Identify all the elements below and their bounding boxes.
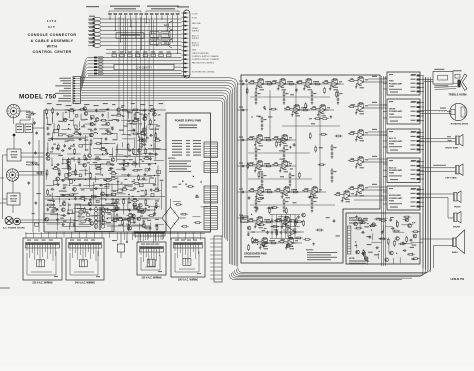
svg-text:SUPPLY: SUPPLY (192, 38, 200, 40)
crossover row wire y=110 (284, 107, 334, 111)
svg-text:FRONT: FRONT (454, 206, 461, 208)
svg-text:POWER AMP.: POWER AMP. (389, 140, 403, 143)
svg-text:CONSOLE CONNECTOR: CONSOLE CONNECTOR (28, 33, 77, 37)
junction node (13, 134, 16, 137)
output buffer op-amp (drum channel) (348, 102, 387, 114)
wire name labels row (47, 103, 163, 106)
crossover op-amp stage (276,192) (274, 187, 294, 199)
scan tone veil crossover (242, 76, 379, 262)
LESLIE 750 footer label (451, 278, 465, 281)
svg-text:NOTES:: NOTES: (168, 158, 176, 160)
svg-text:AUX #2: AUX #2 (389, 166, 397, 169)
connector horizontal wire rows (106, 19, 182, 53)
svg-text:POWER SUPPLY PWB: POWER SUPPLY PWB (175, 120, 202, 123)
crossover op-amp stage (274,166) (272, 161, 292, 173)
power supply output connector J3 (204, 186, 218, 203)
svg-text:R L/O: R L/O (192, 17, 197, 19)
scan tone veil connector (88, 5, 192, 76)
inter-board vertical wires (382, 76, 386, 266)
treble horn wires (424, 80, 457, 90)
svg-text:LOWER: LOWER (10, 196, 18, 198)
svg-text:CONTROL SUPPLY COMMON: CONTROL SUPPLY COMMON (192, 56, 219, 58)
main cable bundle to amplifiers (81, 78, 238, 267)
crossover op-amp stage (250,192) (248, 187, 268, 199)
bass power amp labels (349, 217, 369, 264)
connector matrix component cluster (150, 32, 170, 45)
bass speaker wires (420, 239, 453, 268)
crossover op-amp stage (249,166) (247, 161, 267, 173)
front speaker upper (454, 191, 462, 208)
svg-text:240 V.A.C. WIRING: 240 V.A.C. WIRING (75, 282, 95, 285)
bass amp circuitry (354, 215, 424, 264)
keyboard preamp stage (334, 191, 387, 203)
svg-text:KIT: KIT (48, 25, 55, 29)
svg-text:MODEL 750: MODEL 750 (19, 94, 56, 101)
AC power cord plug (3, 217, 26, 230)
motor drive return wires (3, 155, 8, 219)
svg-text:PWB: PWB (389, 144, 394, 146)
aux 2 power amp pwb (383, 158, 424, 183)
connector pin designator row (108, 13, 179, 17)
svg-text:DRIVE: DRIVE (11, 157, 18, 159)
svg-text:PWB: PWB (389, 173, 394, 175)
svg-text:DRUM: DRUM (389, 109, 396, 111)
crossover row wire y=243 (252, 240, 302, 244)
speaker return vertical wires (423, 76, 431, 272)
upper rotor motor symbol (7, 104, 20, 117)
mains selector terminal strip TB2 (134, 232, 165, 244)
right console connector capsule (182, 10, 190, 78)
svg-text:GND: GND (192, 49, 197, 51)
crossover row wire y=140 (247, 137, 296, 141)
crossover op-amp stage (324,84) (322, 79, 342, 91)
connector pin drop wires (109, 17, 178, 54)
crossover interior extra components (245, 79, 342, 246)
output buffer op-amp (keyboard channel) (348, 184, 387, 197)
svg-text:LESLIE 750: LESLIE 750 (451, 278, 465, 281)
svg-text:SUPPLY: SUPPLY (192, 30, 200, 32)
svg-text:PWB: PWB (389, 114, 394, 116)
svg-text:CONTROL CENTER: CONTROL CENTER (32, 50, 71, 54)
right side speaker (445, 135, 463, 150)
svg-text:MOTOR: MOTOR (10, 154, 18, 156)
svg-text:117A: 117A (47, 19, 57, 23)
svg-text:MOTOR: MOTOR (10, 198, 18, 200)
crossover op-amp stage (276,222) (274, 217, 294, 229)
lower connector wire rows (106, 58, 182, 74)
svg-text:POWER AMP.: POWER AMP. (389, 197, 403, 200)
bridge rectifier CR1 (156, 199, 186, 234)
svg-text:RED GND: RED GND (192, 23, 201, 25)
crossover op-amp stage (304,192) (302, 187, 322, 199)
control center output connector (73, 77, 81, 104)
120 VAC wiring option box (137, 242, 166, 280)
treble driver assembly box (433, 69, 462, 84)
keyboard power amp pwb (383, 186, 424, 210)
MODEL 750 label (19, 94, 56, 101)
crossover notes (306, 250, 337, 261)
drum inductor (440, 108, 448, 112)
crossover op-amp stage (312,110) (310, 105, 330, 117)
svg-text:A.C. POWER CHORD: A.C. POWER CHORD (3, 227, 25, 230)
CON-OUTPUT header labels (86, 6, 189, 8)
connector assembly bottom wire (88, 75, 190, 77)
220 VAC wiring option box (23, 238, 62, 285)
svg-text:L OUT: L OUT (192, 13, 198, 15)
output buffer op-amp (aux1 channel) (348, 129, 387, 142)
left column components (28, 113, 44, 232)
left console connector column (88, 16, 106, 48)
crossover low-pass filter section (247, 207, 311, 251)
crossover vertical component chains (255, 90, 343, 212)
svg-text:BASS: BASS (452, 251, 458, 254)
front speaker wires (420, 194, 454, 218)
crossover op-amp stage (250,84) (248, 79, 268, 91)
console connector assembly cable brackets (109, 6, 179, 13)
page corner mark (0, 287, 10, 289)
right connector signal labels (192, 13, 219, 73)
svg-text:POWER AMP.: POWER AMP. (389, 82, 403, 85)
svg-text:120 V.A.C. WIRING: 120 V.A.C. WIRING (141, 277, 161, 280)
svg-text:AUX #1: AUX #1 (192, 34, 199, 37)
power supply pwb enclosure (166, 113, 211, 232)
motor control long wires (45, 194, 165, 199)
svg-text:POWER AMP.: POWER AMP. (389, 169, 403, 172)
motor control circuit components (123, 205, 164, 231)
scan tone veil bass amp (347, 214, 419, 263)
svg-text:DRIVE: DRIVE (11, 201, 18, 203)
aux 1 power amp pwb (383, 129, 424, 153)
crossover capacitor bank (270, 215, 300, 239)
right side speaker wires (420, 136, 456, 142)
svg-text:ROTATING DRUM: ROTATING DRUM (451, 122, 469, 125)
crossover network pwb enclosure (241, 75, 380, 263)
output connector wire labels (55, 78, 71, 102)
svg-text:220 V.A.C. WIRING: 220 V.A.C. WIRING (32, 282, 52, 285)
left side speaker wires (420, 165, 456, 172)
motor pick-up pwb label lower (26, 162, 40, 167)
crossover output filter op-amp (283, 228, 304, 239)
crossover row wire y=84 (248, 81, 344, 85)
svg-text:RIGHT SIDE: RIGHT SIDE (445, 148, 458, 150)
drum speaker wires (420, 111, 451, 114)
svg-text:KEYBOARD: KEYBOARD (389, 194, 401, 197)
motor wiring to control center (19, 111, 44, 175)
bottom cable bus run (230, 77, 431, 280)
crossover row wire y=166 (247, 163, 296, 167)
power supply output connector J2 (204, 162, 218, 173)
svg-text:CIRCUIT GROUND: CIRCUIT GROUND (192, 53, 209, 55)
100 VAC wiring option box (171, 238, 205, 282)
crossover intermediate row wires (247, 94, 340, 232)
title text block (28, 19, 77, 54)
left margin tick marks (0, 178, 6, 203)
svg-text:SLOW MOTOR CONTROL: SLOW MOTOR CONTROL (192, 72, 215, 74)
left connector dense stack (88, 56, 106, 75)
crossover op-amp stage (249,140) (247, 135, 267, 147)
connector matrix relay box (116, 33, 144, 39)
motor interface boxes (14, 118, 33, 133)
crossover op-amp stage (280,243) (278, 238, 298, 250)
scan tone veil preamp (45, 100, 165, 232)
svg-text:FWD: FWD (389, 81, 394, 83)
bass amp input connector bar (348, 226, 351, 254)
svg-text:FAST MOTOR CONTROL: FAST MOTOR CONTROL (192, 61, 214, 64)
mains terminal strip TB1 (210, 236, 222, 282)
console-to-output fan wires (81, 58, 89, 91)
treble horn (448, 74, 467, 96)
output buffer op-amp (aux2 channel) (348, 156, 387, 169)
motor pick-up pwb label upper (26, 112, 35, 119)
FWD power amp pwb (383, 72, 424, 95)
svg-text:POWER AMP.: POWER AMP. (389, 110, 403, 113)
svg-text:FRONT: FRONT (453, 227, 461, 229)
bass speaker (452, 230, 465, 254)
drum power amp pwb (383, 99, 424, 124)
svg-text:SUPPLY: SUPPLY (192, 45, 200, 47)
preamp reference designator specks (49, 111, 164, 224)
svg-text:PWB: PWB (389, 86, 394, 88)
crossover input connector (241, 216, 249, 223)
power supply pwb title (175, 120, 202, 129)
svg-text:TREBLE HORN: TREBLE HORN (448, 93, 466, 96)
connector inline component row (112, 51, 171, 56)
crossover op-amp stage (286,110) (284, 105, 304, 117)
crossover pwb label (244, 253, 267, 258)
power supply voltage table (172, 140, 201, 156)
svg-text:AUX #2: AUX #2 (192, 41, 199, 44)
output buffer op-amp (fwd channel) (348, 76, 387, 88)
left side speaker (445, 164, 463, 179)
crossover vertical interconnects (247, 84, 320, 218)
transformer T1 windings (77, 205, 111, 230)
rotating drum speaker (450, 103, 469, 125)
crossover op-amp stage (254,243) (252, 238, 272, 250)
crossover op-amp stage (274,140) (272, 135, 292, 147)
crossover row wire y=222 (247, 219, 298, 223)
fuse F1 (75, 210, 88, 214)
svg-text:CONTROL CIRCUIT COMMON: CONTROL CIRCUIT COMMON (192, 59, 219, 61)
svg-text:PWB: PWB (389, 201, 394, 203)
crossover input coupling capacitors (237, 81, 248, 220)
lower motor drive box (7, 181, 20, 213)
CON IDENTITY box (114, 64, 174, 69)
svg-text:PWB: PWB (26, 117, 31, 119)
preamp circuitry (control center interior) (45, 107, 164, 232)
transformer secondary wires (107, 210, 156, 232)
crossover op-amp stage (272,84) (270, 79, 290, 91)
svg-text:AUX #1: AUX #1 (389, 137, 397, 140)
line fuse assembly (112, 232, 128, 258)
supply group braces (164, 22, 172, 48)
power transformer T1 box (75, 205, 114, 232)
crossover op-amp stage (298,84) (296, 79, 316, 91)
svg-text:& CABLE ASSEMBLY: & CABLE ASSEMBLY (31, 39, 74, 43)
power supply output connector J4 (204, 207, 218, 230)
mains wires to transformer (26, 213, 75, 223)
svg-text:WITH: WITH (47, 45, 58, 49)
bass power amp pwb enclosure (346, 213, 420, 264)
power supply rectifier circuit (172, 176, 208, 228)
240 VAC wiring option box (66, 238, 104, 285)
crossover row wire y=192 (248, 189, 326, 193)
pin drop lines into preamp (119, 17, 153, 158)
power supply output connector J1 (204, 142, 218, 158)
svg-text:UPPER: UPPER (11, 152, 18, 154)
wiring box feed drops (25, 232, 205, 240)
svg-text:LEFT SIDE: LEFT SIDE (445, 177, 457, 179)
preamp long interconnect wires (48, 110, 167, 227)
front speaker lower (453, 212, 461, 229)
lower rotor motor symbol (6, 169, 18, 181)
upper motor drive box (7, 135, 21, 161)
control center enclosure outline (44, 110, 210, 232)
crossover op-amp stage (249,222) (247, 217, 267, 229)
svg-text:100 V.A.C. WIRING: 100 V.A.C. WIRING (178, 279, 198, 282)
power supply notes (168, 158, 191, 172)
